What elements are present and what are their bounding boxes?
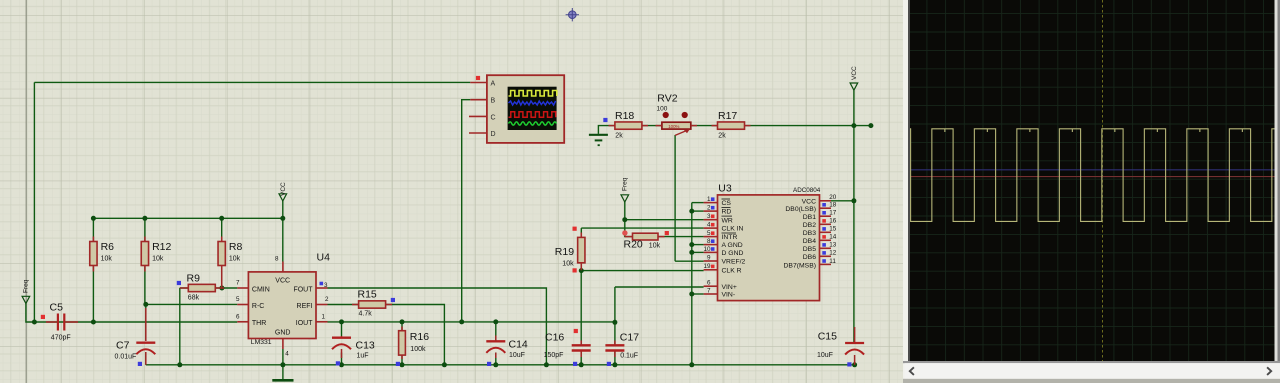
- svg-text:R18: R18: [615, 110, 634, 122]
- svg-text:D GND: D GND: [722, 250, 744, 257]
- svg-text:REFI: REFI: [297, 303, 313, 310]
- svg-text:18: 18: [829, 202, 837, 209]
- svg-text:1: 1: [322, 314, 326, 321]
- svg-text:1: 1: [707, 196, 711, 203]
- svg-text:16: 16: [829, 218, 837, 225]
- svg-text:R8: R8: [229, 241, 243, 253]
- svg-text:CLK R: CLK R: [722, 267, 742, 274]
- svg-text:DB4: DB4: [803, 238, 816, 245]
- svg-text:RV2: RV2: [657, 93, 677, 105]
- svg-text:R17: R17: [718, 110, 737, 122]
- svg-text:DB7(MSB): DB7(MSB): [784, 262, 816, 269]
- svg-text:9: 9: [707, 254, 711, 261]
- svg-text:VREF/2: VREF/2: [722, 259, 746, 266]
- svg-text:Freq: Freq: [621, 177, 628, 191]
- svg-text:VCC: VCC: [802, 199, 816, 206]
- svg-text:100: 100: [657, 106, 668, 113]
- svg-text:R20: R20: [624, 239, 643, 251]
- svg-text:10k: 10k: [562, 260, 574, 267]
- svg-text:C5: C5: [50, 302, 64, 314]
- svg-text:RD: RD: [722, 209, 732, 216]
- svg-text:C: C: [491, 114, 496, 121]
- svg-text:VCC: VCC: [275, 277, 290, 284]
- svg-text:GND: GND: [275, 330, 291, 337]
- svg-text:DB3: DB3: [803, 230, 816, 237]
- svg-text:VIN-: VIN-: [722, 292, 736, 299]
- svg-text:2: 2: [707, 205, 711, 212]
- svg-text:4: 4: [707, 222, 711, 229]
- svg-text:20: 20: [829, 194, 837, 201]
- svg-text:5: 5: [236, 296, 240, 303]
- svg-text:R6: R6: [101, 241, 115, 253]
- svg-text:100k: 100k: [410, 346, 426, 353]
- svg-text:LM331: LM331: [251, 339, 272, 346]
- svg-text:R16: R16: [410, 331, 429, 343]
- svg-text:INTR: INTR: [722, 234, 738, 241]
- svg-text:470pF: 470pF: [51, 335, 71, 342]
- svg-text:10: 10: [703, 246, 711, 253]
- svg-text:R12: R12: [152, 241, 171, 253]
- svg-text:7: 7: [707, 287, 711, 294]
- svg-text:8: 8: [707, 238, 711, 245]
- svg-text:10k: 10k: [649, 242, 661, 249]
- svg-text:4.7k: 4.7k: [359, 311, 373, 318]
- svg-text:CLK IN: CLK IN: [722, 226, 744, 233]
- svg-text:C15: C15: [818, 331, 837, 343]
- svg-text:10uF: 10uF: [509, 352, 525, 359]
- svg-text:8: 8: [275, 256, 279, 263]
- svg-text:0.01uF: 0.01uF: [115, 354, 137, 361]
- svg-text:2k: 2k: [615, 132, 623, 139]
- svg-text:15: 15: [829, 226, 837, 233]
- svg-text:4: 4: [285, 351, 289, 358]
- svg-text:C7: C7: [116, 340, 130, 352]
- svg-text:0.1uF: 0.1uF: [620, 352, 638, 359]
- svg-text:6: 6: [707, 280, 711, 287]
- svg-text:B: B: [491, 98, 496, 105]
- svg-text:IOUT: IOUT: [296, 320, 313, 327]
- svg-text:ADC0804: ADC0804: [793, 187, 821, 194]
- svg-text:DB2: DB2: [803, 222, 816, 229]
- svg-text:C13: C13: [356, 340, 375, 352]
- svg-text:CMIN: CMIN: [252, 286, 270, 293]
- svg-text:VCC: VCC: [280, 182, 287, 196]
- svg-text:14: 14: [829, 234, 837, 241]
- svg-text:100%: 100%: [668, 124, 679, 129]
- svg-text:13: 13: [829, 242, 837, 249]
- svg-text:2: 2: [325, 296, 329, 303]
- svg-text:C14: C14: [509, 339, 528, 351]
- svg-text:A GND: A GND: [722, 242, 743, 249]
- svg-text:R19: R19: [555, 246, 574, 258]
- svg-text:VCC: VCC: [851, 66, 858, 80]
- svg-text:DB0(LSB): DB0(LSB): [785, 206, 816, 213]
- svg-text:150pF: 150pF: [544, 352, 564, 359]
- svg-text:6: 6: [236, 314, 240, 321]
- svg-text:C16: C16: [545, 331, 564, 343]
- svg-text:R15: R15: [358, 288, 377, 300]
- svg-text:R-C: R-C: [252, 303, 264, 310]
- svg-text:A: A: [491, 81, 496, 88]
- svg-text:U3: U3: [718, 182, 732, 194]
- svg-text:10uF: 10uF: [817, 352, 833, 359]
- svg-text:1uF: 1uF: [357, 353, 369, 360]
- svg-text:3: 3: [324, 282, 328, 289]
- svg-text:3: 3: [707, 213, 711, 220]
- svg-text:10k: 10k: [101, 256, 113, 263]
- svg-text:Freq: Freq: [22, 279, 29, 293]
- svg-text:68k: 68k: [188, 295, 200, 302]
- svg-text:DB1: DB1: [803, 214, 816, 221]
- svg-text:17: 17: [829, 210, 837, 217]
- svg-text:DB5: DB5: [803, 246, 816, 253]
- svg-text:D: D: [491, 131, 496, 138]
- svg-text:11: 11: [829, 258, 836, 265]
- svg-text:CS: CS: [722, 200, 732, 207]
- svg-text:WR: WR: [722, 217, 733, 224]
- svg-text:VIN+: VIN+: [722, 284, 737, 291]
- svg-text:12: 12: [829, 250, 837, 257]
- svg-text:2k: 2k: [718, 132, 726, 139]
- svg-text:THR: THR: [252, 320, 266, 327]
- svg-text:U4: U4: [317, 252, 331, 264]
- svg-text:5: 5: [707, 230, 711, 237]
- svg-text:10k: 10k: [229, 256, 241, 263]
- svg-text:C17: C17: [620, 332, 639, 344]
- svg-text:FOUT: FOUT: [293, 286, 313, 293]
- svg-text:10k: 10k: [152, 256, 164, 263]
- svg-text:19: 19: [703, 263, 711, 270]
- svg-text:DB6: DB6: [803, 254, 816, 261]
- svg-text:R9: R9: [187, 272, 201, 284]
- svg-text:7: 7: [236, 280, 240, 287]
